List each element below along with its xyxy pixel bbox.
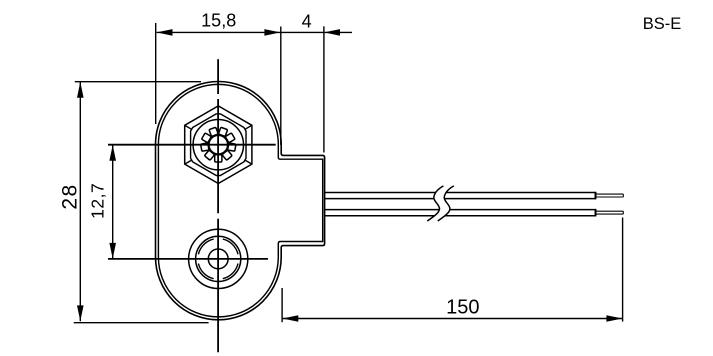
svg-text:4: 4 [302,11,312,31]
wire 2 bare end [596,211,624,214]
hex terminal (female snap) U-hex [185,106,252,184]
extension line body bottom [74,322,209,324]
wire 1 insulation [325,192,596,200]
arrow 4 right (outside) [324,29,340,36]
inner hexagon (chamfered corners) [191,114,246,176]
svg-text:BS-E: BS-E [643,15,682,33]
wire break symbol white band [427,186,454,221]
arrow 150 right [606,315,622,322]
extension line body left edge [155,23,157,124]
bevel arc SE [223,263,238,278]
battery snap body outer contour [156,82,325,320]
center stud circle [208,249,228,269]
middle circle [196,236,241,281]
centerline horizontal hex [108,144,276,146]
bevel arc SW [198,263,213,278]
dimension lines [74,23,623,323]
arrowheads [77,29,622,322]
arrow 15,8 left [157,29,173,36]
round terminal (male stud) [189,229,248,288]
svg-text:150: 150 [446,296,479,318]
wire 2 insulation [325,209,596,217]
svg-text:15,8: 15,8 [201,11,236,31]
dimension line 28 [79,82,81,321]
extension line 150 left [281,288,283,322]
extension line body top [75,81,201,83]
centerline horizontal round terminal [108,258,268,260]
wire 1 bare end [596,194,624,197]
extension line tab right edge [323,26,325,152]
svg-text:12,7: 12,7 [88,183,108,219]
bevel arc NE [223,239,238,254]
arrow 12,7 top [109,145,116,161]
extension line body right edge [280,27,282,146]
star washer base disk [207,133,230,156]
wire break S-curve left [427,186,443,221]
dimension line 150 [282,318,622,320]
centerline vertical [217,59,219,352]
outer circle [189,229,248,288]
inner circle of hex [193,120,243,170]
arrow 28 bottom [77,305,84,321]
bevel arc NW [198,239,213,254]
outer hexagon [185,106,252,184]
hex chamfer connector lines [185,106,252,184]
arrow 12,7 bottom [109,243,116,259]
top dimension line 15,8 + 4 [157,31,352,33]
arrow 15,8 right / 4 left [264,29,280,36]
wire break S-curve right [438,186,454,221]
arrow 150 left [282,315,298,322]
svg-text:28: 28 [59,183,82,209]
arrow 28 top [77,82,84,98]
dimension line 12,7 [112,145,114,259]
star washer center hole [209,135,228,154]
extension line 150 right [622,218,624,322]
battery snap body inner contour [158,84,322,317]
star washer teeth [201,127,236,162]
